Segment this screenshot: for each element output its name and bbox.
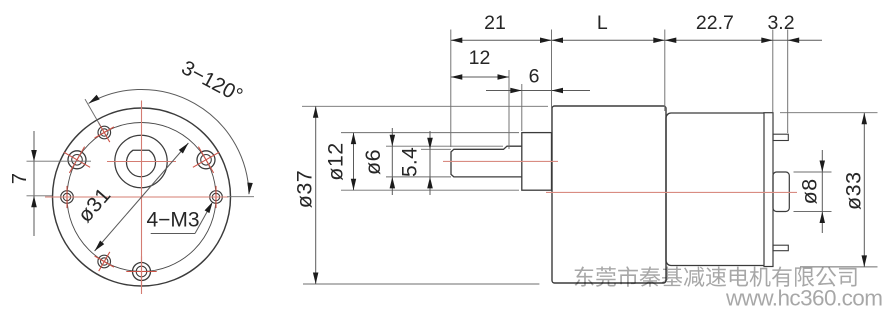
svg-text:3.2: 3.2 xyxy=(767,12,794,34)
svg-text:12: 12 xyxy=(469,47,491,69)
svg-text:21: 21 xyxy=(484,12,506,34)
svg-text:ø8: ø8 xyxy=(798,178,822,204)
svg-text:ø6: ø6 xyxy=(361,149,385,175)
svg-text:L: L xyxy=(597,12,608,34)
svg-text:5.4: 5.4 xyxy=(399,147,422,177)
svg-text:6: 6 xyxy=(529,65,540,87)
svg-text:ø12: ø12 xyxy=(324,142,348,181)
svg-text:www.hc360.com: www.hc360.com xyxy=(725,286,883,310)
svg-text:ø37: ø37 xyxy=(293,170,317,209)
svg-text:22.7: 22.7 xyxy=(696,12,734,34)
svg-text:4−M3: 4−M3 xyxy=(146,209,199,232)
svg-text:ø33: ø33 xyxy=(842,171,866,210)
svg-text:7: 7 xyxy=(9,173,31,184)
